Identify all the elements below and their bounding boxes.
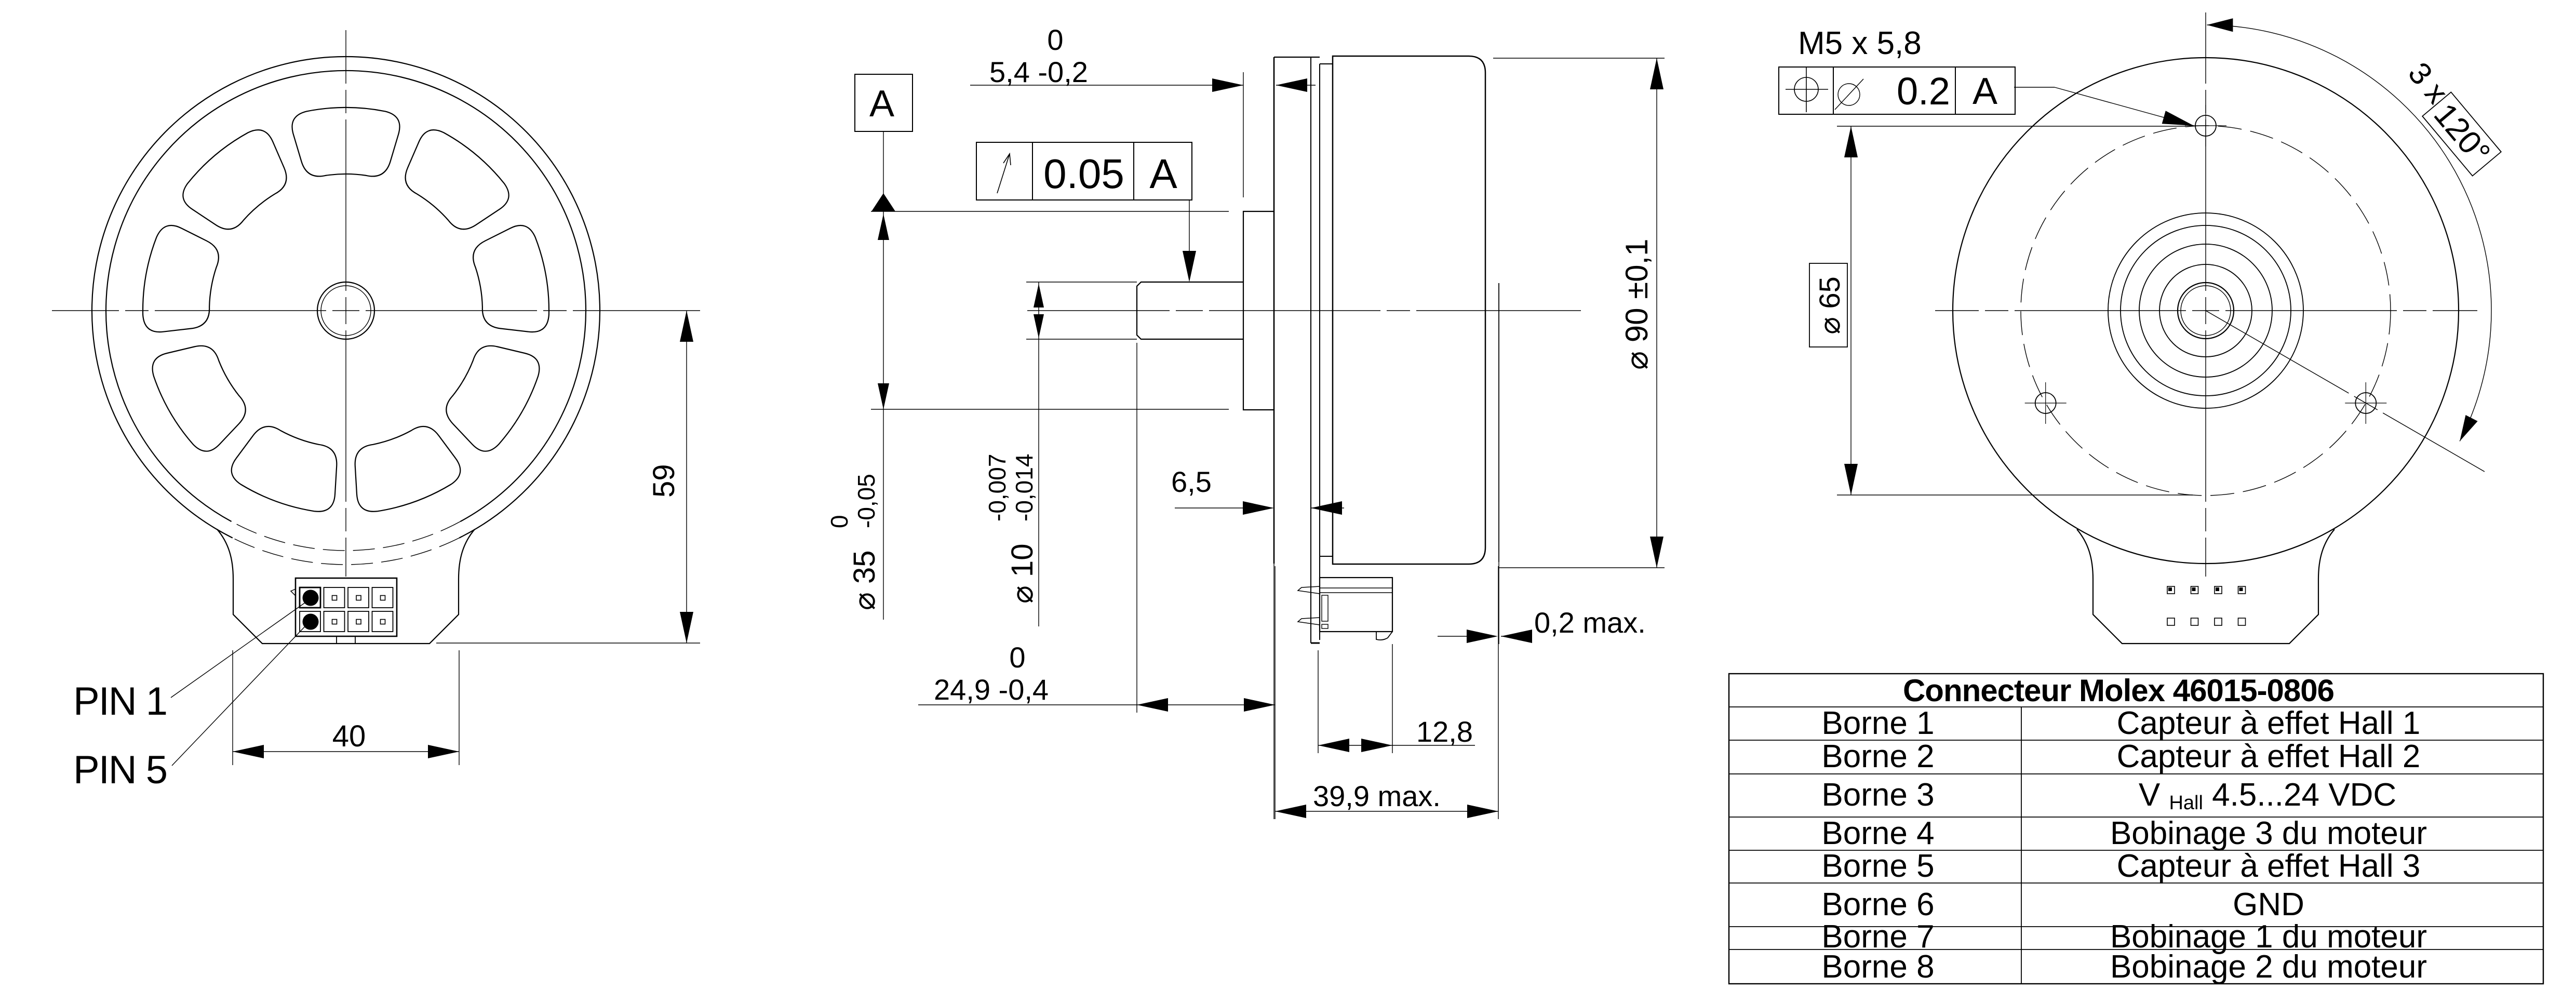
svg-text:0: 0 xyxy=(826,515,853,528)
vent slot 5 (front view) xyxy=(355,426,461,512)
svg-text:5,4 -0,2: 5,4 -0,2 xyxy=(989,56,1088,88)
motor body (side view) xyxy=(1333,56,1485,564)
svg-text:M5 x 5,8: M5 x 5,8 xyxy=(1798,25,1922,61)
dimension dia10 lines xyxy=(1026,282,1137,283)
rear boss ring 4 xyxy=(2159,264,2252,357)
pilot boss dia35 (side view) xyxy=(1243,211,1274,410)
vent slot 3 (front view) xyxy=(473,225,549,332)
front view vertical centerline xyxy=(345,297,346,324)
rear cover edge 0.2 protrusion xyxy=(1498,283,1499,562)
svg-text:-0,05: -0,05 xyxy=(853,474,880,528)
vent slot 7 (front view) xyxy=(153,346,246,451)
rear view diagonal centerline xyxy=(2354,396,2378,410)
svg-text:24,9 -0,4: 24,9 -0,4 xyxy=(934,673,1049,706)
vent slot 4 (front view) xyxy=(446,346,539,451)
svg-text:0.05: 0.05 xyxy=(1043,151,1124,197)
svg-text:Bobinage 2 du moteur: Bobinage 2 du moteur xyxy=(2110,949,2427,985)
svg-text:-0,007: -0,007 xyxy=(984,454,1011,521)
fcf2 value xyxy=(1838,84,1860,105)
mounting bracket base outline (rear view) xyxy=(2077,529,2334,644)
svg-text:Capteur à effet Hall 2: Capteur à effet Hall 2 xyxy=(2117,739,2421,774)
dimension 24.9 lines xyxy=(1136,343,1137,713)
shaft circle inner (front view) xyxy=(321,286,371,336)
dimension dia35 text xyxy=(826,474,881,610)
vent slot 6 (front view) xyxy=(232,426,337,512)
rear boss ring 1 xyxy=(2108,213,2303,408)
leader to pin 5 xyxy=(172,624,307,766)
dimension dia10 text xyxy=(984,454,1039,604)
leader to pin 1 xyxy=(171,601,307,698)
svg-text:0,2 max.: 0,2 max. xyxy=(1534,606,1646,639)
svg-text:0: 0 xyxy=(1009,641,1025,674)
datum A leader xyxy=(883,131,884,194)
dimension 12.8 lines xyxy=(1318,650,1319,753)
svg-text:6,5: 6,5 xyxy=(1171,465,1212,498)
connector Molex housing (front view) xyxy=(296,578,397,636)
vent slot 1 (front view) xyxy=(292,108,399,176)
svg-text:Borne 1: Borne 1 xyxy=(1821,705,1934,741)
fcf2 leader xyxy=(2014,87,2055,88)
rear view horizontal centerline xyxy=(2192,310,2219,311)
motor housing inner rim circle (front view) xyxy=(106,71,586,521)
dimension 40 extension and line xyxy=(232,650,233,765)
pin 5 contact (filled) xyxy=(303,614,319,630)
svg-text:A: A xyxy=(1149,151,1177,197)
svg-text:Borne 6: Borne 6 xyxy=(1821,887,1934,922)
vent slot 8 (front view) xyxy=(143,225,219,332)
feature control frame runout 0.05 A xyxy=(976,142,1192,200)
datum A triangle xyxy=(871,193,895,211)
pin 1 contact (filled) xyxy=(303,590,319,606)
svg-text:39,9 max.: 39,9 max. xyxy=(1313,780,1441,812)
svg-text:⌀ 65: ⌀ 65 xyxy=(1813,276,1846,335)
svg-text:⌀ 10: ⌀ 10 xyxy=(1005,543,1039,604)
shaft dia10 (side view) xyxy=(1137,282,1243,339)
vent slot 9 (front view) xyxy=(183,130,286,229)
rear boss ring 3 xyxy=(2139,244,2272,377)
front view horizontal centerline xyxy=(332,310,359,311)
shaft bore circle (front view) xyxy=(317,282,374,339)
svg-text:Borne 2: Borne 2 xyxy=(1821,739,1934,774)
svg-text:Borne 3: Borne 3 xyxy=(1821,777,1934,813)
svg-text:Capteur à effet Hall 1: Capteur à effet Hall 1 xyxy=(2117,705,2421,741)
arc 3x120 deg xyxy=(2207,25,2491,441)
svg-text:40: 40 xyxy=(332,719,366,753)
feature control frame position dia0.2 A xyxy=(1779,67,2015,114)
connector pin cells (front view) xyxy=(300,587,320,608)
rear connector pins xyxy=(2167,586,2175,594)
M5 mounting holes x3 xyxy=(2195,115,2216,136)
dimension 5.4 lines xyxy=(1243,72,1244,197)
rear shaft circle xyxy=(2178,283,2234,339)
svg-text:0.2: 0.2 xyxy=(1897,70,1950,113)
svg-text:Bobinage 3 du moteur: Bobinage 3 du moteur xyxy=(2110,815,2427,851)
rear shaft inner circle xyxy=(2181,286,2231,336)
svg-text:59: 59 xyxy=(647,464,681,498)
svg-text:0: 0 xyxy=(1047,23,1063,56)
svg-text:Borne 4: Borne 4 xyxy=(1821,815,1934,851)
connector Molex (side view) xyxy=(1320,578,1392,632)
bolt circle dia65 (dashed) xyxy=(2021,126,2391,496)
dimension dia90 lines xyxy=(1493,58,1665,59)
motor housing outer circle (front view) xyxy=(92,57,600,538)
svg-text:Connecteur Molex 46015-0806: Connecteur Molex 46015-0806 xyxy=(1903,673,2334,708)
svg-text:A: A xyxy=(1973,71,1997,112)
120 box xyxy=(2422,92,2501,176)
rear view vertical centerline xyxy=(2205,297,2206,324)
dimension 39.9 lines xyxy=(1498,566,1499,819)
mounting bracket base outline (front view) xyxy=(217,529,475,644)
svg-text:PIN 5: PIN 5 xyxy=(73,748,167,792)
svg-text:GND: GND xyxy=(2233,887,2304,922)
svg-text:PIN 1: PIN 1 xyxy=(73,679,167,724)
dimension dia65 box xyxy=(1809,263,1847,347)
side view centerline xyxy=(1176,310,1203,311)
svg-text:12,8: 12,8 xyxy=(1416,715,1473,748)
dimension dia35 lines xyxy=(871,211,1229,212)
mounting flange plates (side view) xyxy=(1273,57,1275,564)
dimension dia65 lines xyxy=(1837,126,2185,127)
dimension 0.2 lines xyxy=(1438,636,1469,637)
dimension 6.5 lines xyxy=(1175,507,1254,509)
rear view outer circle xyxy=(1953,58,2459,564)
svg-text:Borne 8: Borne 8 xyxy=(1821,949,1934,985)
vent slot 2 (front view) xyxy=(406,130,509,229)
svg-text:-0,014: -0,014 xyxy=(1011,454,1038,521)
rear boss ring 2 xyxy=(2121,225,2291,396)
svg-text:A: A xyxy=(869,83,894,125)
table grid xyxy=(1729,674,2543,984)
svg-text:⌀ 90 ±0,1: ⌀ 90 ±0,1 xyxy=(1619,238,1654,370)
svg-text:Capteur à effet Hall 3: Capteur à effet Hall 3 xyxy=(2117,848,2421,884)
fcf leader arrow xyxy=(1189,200,1190,278)
svg-text:⌀ 35: ⌀ 35 xyxy=(848,550,881,610)
svg-text:Borne 5: Borne 5 xyxy=(1821,848,1934,884)
datum A box xyxy=(855,74,913,131)
dimension 59 lines xyxy=(436,643,700,644)
